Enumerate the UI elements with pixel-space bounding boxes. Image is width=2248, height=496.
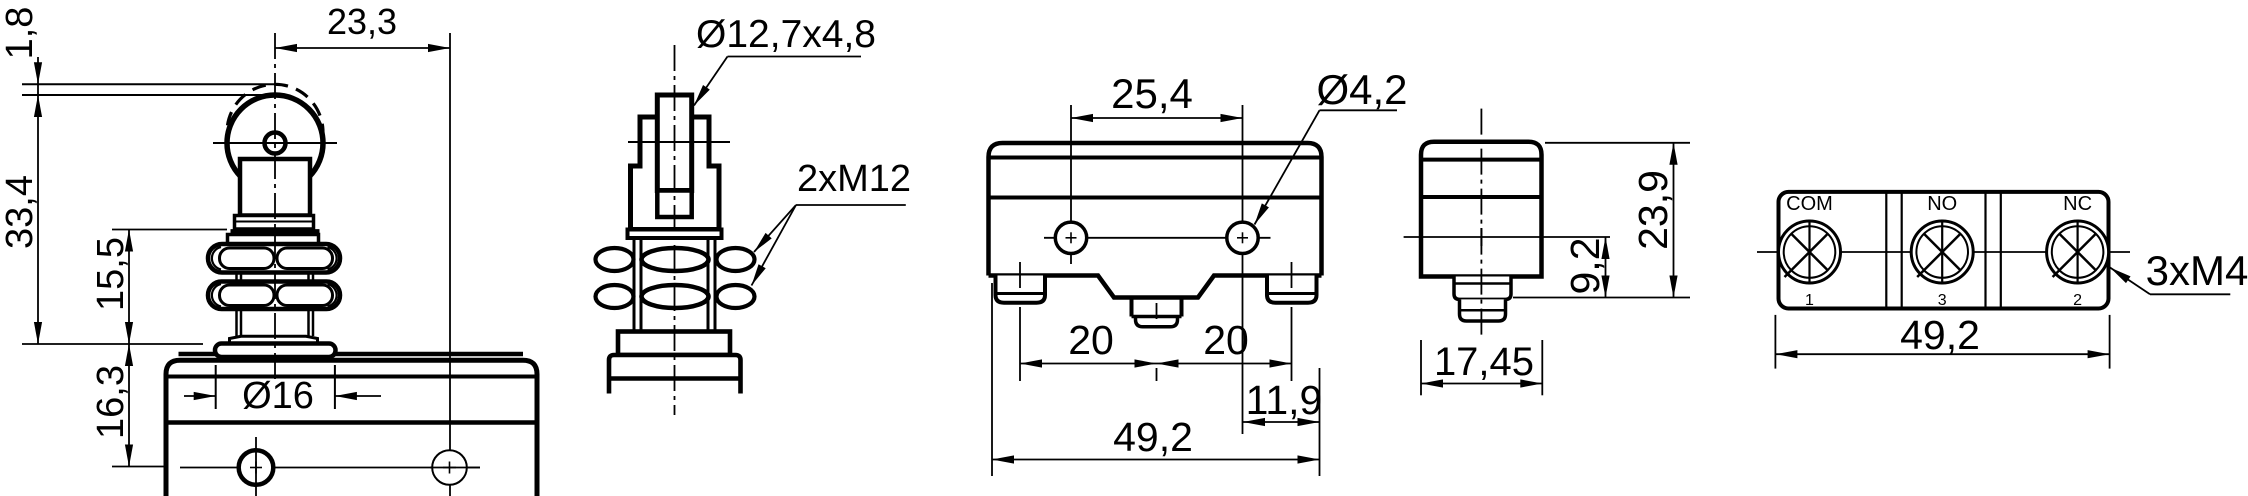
dim 25,4: [1071, 117, 1243, 119]
node tangent lines: [22, 83, 278, 85]
ext top 23,9: [1545, 142, 1690, 144]
roller: [227, 95, 323, 191]
collar: [618, 332, 730, 356]
hole crosshair: [1044, 237, 1271, 239]
dim 20 right: [1157, 363, 1292, 365]
leader 2xM12: [796, 204, 906, 206]
center dashes: [1156, 303, 1158, 319]
base plate: [215, 344, 336, 358]
lid line: [989, 156, 1322, 160]
dim 23,9: [1673, 143, 1675, 298]
wire: [449, 33, 451, 496]
mounting hole left: [239, 450, 274, 485]
lid line: [166, 375, 537, 379]
bushing flange: [230, 336, 318, 343]
svg-text:25,4: 25,4: [1111, 70, 1193, 117]
dim 49,2: [991, 283, 993, 476]
washer dark band: [231, 229, 320, 234]
terminal screw COM: [1779, 221, 1841, 283]
terminal left: [996, 276, 1046, 303]
terminal block outline: [1779, 192, 2109, 309]
svg-text:9,2: 9,2: [1562, 238, 1608, 295]
centerline: [274, 33, 276, 381]
leader O12,7x4,8: [728, 56, 862, 58]
dim 11,9: [1319, 368, 1321, 476]
base: [609, 355, 741, 394]
nut upper: side/center ellipses: [596, 248, 634, 271]
dim 16,3: [128, 344, 130, 467]
nut lower: side/center ellipses: [596, 285, 634, 308]
svg-text:1,8: 1,8: [0, 7, 41, 60]
mid line: [166, 420, 537, 425]
svg-text:2xM12: 2xM12: [797, 158, 911, 200]
ext line hole left: [1070, 105, 1072, 264]
horizontal centerline: [1757, 251, 2130, 253]
hole left: [1055, 222, 1086, 253]
plunger stem: [240, 159, 310, 216]
dim 20 left: [1020, 363, 1157, 365]
svg-text:15,5: 15,5: [90, 237, 132, 311]
svg-text:Ø12,7x4,8: Ø12,7x4,8: [696, 13, 876, 56]
collar: [228, 235, 319, 245]
dim 15,5: [112, 229, 227, 231]
threaded rod below nuts: [235, 309, 238, 336]
divider 1: [1885, 192, 1887, 309]
fork slot: [657, 191, 691, 218]
centerline: [674, 45, 676, 415]
dim 17,45: [1420, 340, 1422, 395]
leader O4,2: [1320, 109, 1398, 111]
dim 23,3: [275, 47, 450, 49]
stem flange: [628, 230, 722, 239]
svg-text:23,3: 23,3: [327, 1, 397, 42]
body outline: [989, 143, 1322, 276]
leader 3xM4: [2150, 293, 2230, 295]
dim 1,8: [37, 57, 39, 84]
terminal cup1: [1454, 277, 1511, 300]
roller crosshair: [628, 141, 730, 143]
svg-text:3: 3: [1938, 292, 1947, 309]
nut M12 upper: [208, 244, 340, 273]
axle crosshair: [213, 142, 337, 144]
switch body: [166, 360, 537, 496]
svg-text:NC: NC: [2063, 193, 2092, 215]
divider 2: [1984, 192, 1986, 309]
svg-text:20: 20: [1068, 317, 1114, 363]
mid line: [1421, 195, 1542, 199]
svg-text:NO: NO: [1927, 193, 1957, 215]
svg-text:3xM4: 3xM4: [2146, 247, 2248, 294]
axle circle: [265, 133, 286, 154]
roller dashed (released position): [227, 84, 323, 180]
svg-text:20: 20: [1203, 317, 1249, 363]
svg-text:11,9: 11,9: [1246, 377, 1323, 423]
plunger button: [1130, 298, 1134, 317]
fork arms and stem: [631, 117, 720, 230]
svg-text:33,4: 33,4: [0, 175, 41, 249]
bottom edge with notch: [989, 276, 1322, 298]
svg-text:COM: COM: [1786, 193, 1833, 215]
lid line: [1421, 158, 1542, 162]
body top plate: [179, 352, 524, 357]
terminal cup2: [1460, 299, 1506, 321]
dim O16: [215, 365, 217, 409]
terminal screw NC: [2047, 221, 2109, 283]
svg-text:1: 1: [1805, 292, 1814, 309]
threaded rod between nuts: [235, 273, 238, 282]
svg-text:Ø16: Ø16: [242, 375, 314, 417]
svg-text:Ø4,2: Ø4,2: [1316, 66, 1407, 113]
stem band: [235, 216, 314, 230]
hole right: [1227, 222, 1258, 253]
ext bottom: [1513, 297, 1690, 299]
mounting hole right: [432, 450, 467, 485]
svg-text:16,3: 16,3: [90, 365, 132, 439]
center crosshair: [1404, 236, 1610, 238]
svg-text:49,2: 49,2: [1900, 312, 1980, 358]
hole crosshair h: [180, 467, 480, 469]
threaded rod: [634, 238, 715, 332]
svg-text:49,2: 49,2: [1113, 414, 1193, 460]
ext line hole right (long): [1242, 105, 1244, 434]
svg-text:23,9: 23,9: [1630, 170, 1676, 250]
dim 9,2: [1605, 237, 1607, 298]
terminal right: [1267, 276, 1317, 303]
body outline: [1421, 142, 1542, 277]
mid line: [989, 196, 1322, 200]
dim 49,2 view5: [1774, 315, 1776, 369]
svg-text:17,45: 17,45: [1434, 340, 1534, 384]
dim 33,4: [37, 95, 39, 344]
wire ext 33,4 bottom: [22, 343, 203, 345]
roller edge view: [657, 95, 691, 191]
nut M12 lower: [208, 282, 340, 310]
terminal screw NO: [1911, 221, 1973, 283]
svg-text:2: 2: [2073, 292, 2082, 309]
